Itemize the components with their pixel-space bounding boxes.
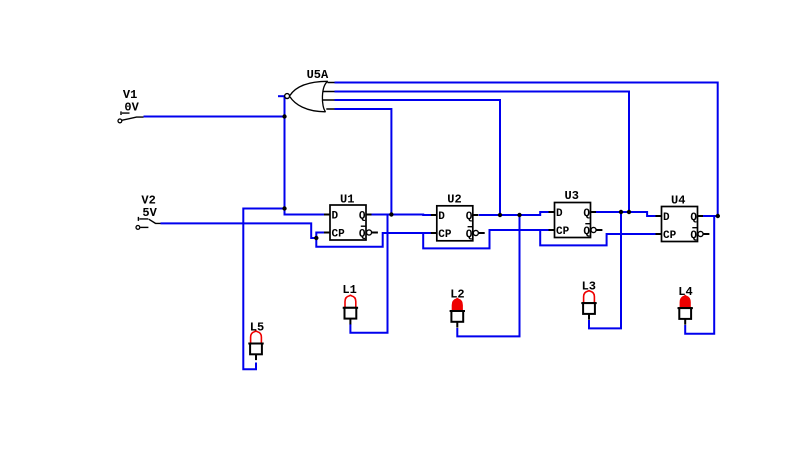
junction U2 Q to gate: [498, 213, 502, 217]
wire U1 Q up to U5A input 4: [335, 109, 392, 215]
junction U1 Q: [389, 212, 393, 216]
lamp L4: [678, 285, 693, 325]
D flip-flop U3: [549, 189, 603, 238]
voltage source V2 (switch symbol): [136, 217, 161, 229]
junction U4 Q: [716, 214, 720, 218]
svg-text:Q: Q: [359, 211, 366, 223]
junction D-net split: [282, 206, 286, 210]
wire U4 Q up to U5A input 1: [335, 83, 718, 217]
svg-text:L4: L4: [678, 285, 692, 299]
svg-text:Q: Q: [359, 229, 366, 241]
wire U1 Q to U2 D: [372, 214, 432, 217]
svg-text:Q: Q: [583, 226, 590, 238]
wire clock to U1 CP and chain: [316, 233, 431, 247]
wire clock chain to U3 CP: [423, 230, 549, 248]
svg-text:Q: Q: [690, 230, 697, 242]
lamp L5: [248, 320, 264, 360]
wire U3 Q down to lamp L3: [589, 212, 621, 328]
NOR gate U5A: [285, 81, 335, 112]
junction V1 / U5A output: [282, 114, 286, 118]
wire U2 Q up to U5A input 3: [335, 100, 501, 215]
svg-text:L3: L3: [582, 280, 596, 294]
svg-text:L5: L5: [250, 320, 264, 334]
wire U3 Q to U4 D: [596, 212, 656, 216]
svg-text:U1: U1: [340, 192, 354, 206]
D flip-flop U2: [431, 193, 485, 241]
junction U3 Q to lamp: [619, 210, 623, 214]
wire V1 output: [144, 116, 285, 118]
svg-text:D: D: [556, 208, 563, 220]
svg-text:0V: 0V: [124, 100, 139, 114]
svg-text:Q: Q: [466, 229, 473, 241]
svg-text:U5A: U5A: [307, 68, 329, 82]
svg-text:D: D: [438, 211, 445, 223]
wire U4 Q to node: [703, 215, 718, 217]
wire U4 Q down to lamp L4: [685, 216, 714, 334]
svg-text:L2: L2: [450, 287, 464, 301]
svg-text:5V: 5V: [142, 206, 157, 220]
svg-text:L1: L1: [342, 283, 356, 297]
wire U3 Q up to U5A input 2: [335, 92, 630, 213]
wire U2 Q to U3 D: [479, 212, 549, 215]
junction clock at U1 CP: [314, 236, 318, 240]
D flip-flop U4: [656, 193, 710, 242]
wire node to L5 branch: [243, 209, 284, 370]
junction U3 Q to gate: [627, 210, 631, 214]
svg-text:U2: U2: [447, 193, 461, 207]
wire U5A output vertical to node: [284, 96, 286, 208]
wire clock chain to U4 CP: [540, 230, 656, 245]
lamp L2: [450, 287, 465, 327]
svg-text:Q: Q: [466, 211, 473, 223]
lamp L1: [342, 283, 358, 324]
svg-text:D: D: [663, 212, 670, 224]
voltage source V1 (switch symbol): [118, 111, 144, 122]
svg-text:Q: Q: [583, 208, 590, 220]
wire U2 Q down to lamp L2: [457, 215, 519, 336]
svg-text:CP: CP: [438, 229, 452, 241]
wire U5A output tail: [278, 95, 284, 97]
wire U1 Q down to lamp L1: [350, 215, 387, 333]
svg-text:U3: U3: [565, 189, 579, 203]
svg-text:CP: CP: [663, 230, 677, 242]
junction U2 Q to lamp: [517, 213, 521, 217]
wire V2 clock feed: [161, 223, 317, 238]
svg-text:Q: Q: [690, 212, 697, 224]
wire node to U1 D input: [285, 209, 325, 215]
svg-text:D: D: [332, 211, 339, 223]
svg-text:U4: U4: [671, 193, 685, 207]
lamp L3: [581, 280, 596, 320]
svg-text:CP: CP: [556, 226, 570, 238]
D flip-flop U1: [324, 192, 378, 240]
svg-text:CP: CP: [332, 229, 346, 241]
